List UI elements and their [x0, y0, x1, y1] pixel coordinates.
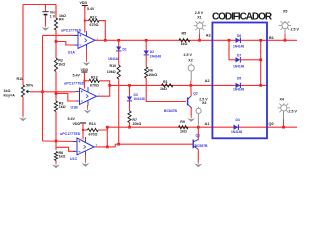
- wire R7 to A1 line: [129, 123, 131, 128]
- wire U1C output: [97, 146, 116, 148]
- svg-text:U1C: U1C: [70, 157, 78, 161]
- svg-text:R14: R14: [89, 122, 96, 126]
- resistor R7 10k: [128, 111, 141, 126]
- wire U1B bottom pin to ground: [87, 105, 89, 108]
- wire R6 down to Q2 base (crosses bus): [146, 78, 186, 102]
- svg-text:B1: B1: [269, 36, 274, 40]
- lamp X4 2.5V lit: [278, 98, 298, 114]
- resistor R13 670 pull-up: [84, 75, 99, 87]
- svg-text:1N4148: 1N4148: [231, 130, 242, 134]
- wire right drop B1: [260, 40, 262, 85]
- lamp X2 2.5V off: [184, 53, 195, 71]
- junction D1 column: [117, 39, 120, 42]
- wire node2 step to U1B minus input: [56, 94, 76, 102]
- wire D7 output to drop: [240, 59, 261, 61]
- junction D2 column: [145, 39, 148, 42]
- svg-text:R6: R6: [148, 69, 153, 73]
- wire A1 line: [107, 126, 297, 128]
- svg-text:A2: A2: [205, 79, 210, 83]
- resistor R12 670 pull-up: [85, 15, 99, 27]
- wire R14 drop / A1 left vertical: [98, 130, 107, 147]
- junction lamp X1: [198, 39, 201, 42]
- svg-text:X5: X5: [283, 10, 287, 14]
- svg-text:1N4148: 1N4148: [233, 87, 244, 91]
- wire top from left corner to R4 column: [23, 4, 56, 6]
- wire R13 drop to bus: [99, 81, 109, 86]
- junction R13 on bus: [108, 84, 111, 87]
- node1 junction to U1A step: [55, 40, 58, 43]
- svg-text:1N4148: 1N4148: [150, 55, 161, 59]
- wire bus A2 line: [110, 84, 268, 86]
- diode D1 1N4148: [108, 47, 127, 62]
- wire R8 to ground: [55, 161, 57, 164]
- junction R7 on A1: [128, 126, 131, 129]
- wire VDD stem to U1B: [83, 72, 85, 89]
- wire X5 stub: [284, 29, 286, 40]
- resistor R2 1k ladder: [54, 58, 65, 72]
- svg-text:R9: R9: [180, 120, 185, 124]
- svg-text:670Ω: 670Ω: [90, 23, 99, 27]
- wire D1 column upper: [118, 40, 120, 46]
- svg-text:VDD: VDD: [73, 122, 81, 126]
- svg-text:2.5 V: 2.5 V: [289, 110, 298, 114]
- wire node3 step to U1C minus input: [56, 147, 75, 151]
- svg-text:U1A: U1A: [68, 50, 76, 54]
- svg-text:1kΩ: 1kΩ: [59, 155, 66, 159]
- title CODIFICADOR: [212, 12, 273, 23]
- ground below U1A: [83, 61, 91, 66]
- svg-text:Key=A: Key=A: [4, 94, 16, 98]
- resistor R5 1k on A3 line: [179, 31, 190, 45]
- junction D7 branch on A3: [228, 39, 231, 42]
- svg-text:R10: R10: [110, 64, 117, 68]
- wire R12 to U1A output node: [99, 21, 105, 41]
- svg-text:D4: D4: [236, 118, 240, 122]
- resistor R4 1k ladder: [54, 14, 66, 30]
- svg-text:1N4148: 1N4148: [233, 64, 244, 68]
- junction VDD to R13: [83, 80, 85, 82]
- svg-text:R5: R5: [182, 31, 187, 35]
- encoder box CODIFICADOR outline: [212, 23, 267, 139]
- power VDD U1C: [68, 117, 87, 126]
- wire R4 top lead: [55, 5, 57, 19]
- svg-text:D6: D6: [237, 34, 241, 38]
- svg-text:uPC177TED: uPC177TED: [61, 28, 82, 32]
- svg-text:1N4148: 1N4148: [108, 57, 119, 61]
- potentiometer R11 1k Key=A: [4, 77, 34, 98]
- wire Vref bottom to ground: [45, 15, 47, 25]
- svg-text:U1B: U1B: [71, 106, 79, 110]
- wire pot wiper to U1B plus input: [30, 91, 76, 93]
- net label A3: [206, 34, 211, 38]
- wire Q2 emitter down: [190, 108, 192, 117]
- node3 junction with signal line: [55, 140, 58, 143]
- svg-text:R4: R4: [59, 18, 64, 22]
- node2 junction to U1B step: [55, 92, 58, 95]
- resistor R6 10k: [145, 67, 158, 78]
- junction R14 on A1 start: [106, 126, 109, 129]
- wire VDD stem to U1C: [82, 123, 84, 140]
- resistor R10 10k: [107, 64, 120, 79]
- op-amp U1B uPC177TED: [64, 81, 100, 109]
- svg-text:D7: D7: [237, 54, 241, 58]
- voltage source Vref 1V battery symbol: [42, 10, 57, 18]
- wire U1C output jog up: [114, 144, 116, 147]
- svg-text:5.4V: 5.4V: [87, 7, 95, 11]
- wire node1 step to U1A minus input: [56, 42, 78, 46]
- svg-text:2.5 V: 2.5 V: [184, 53, 193, 57]
- resistor R8 1k ladder bottom: [54, 151, 65, 161]
- svg-text:X1: X1: [197, 15, 201, 19]
- svg-text:1kΩ: 1kΩ: [58, 62, 65, 66]
- svg-text:D1: D1: [123, 48, 127, 52]
- svg-text:BC557B: BC557B: [195, 144, 209, 148]
- diode D4 1N4148 on A1: [231, 118, 242, 134]
- svg-text:X2: X2: [188, 59, 192, 63]
- wire signal corner to U1C plus input: [43, 140, 76, 143]
- junction drop on A3: [259, 39, 262, 42]
- op-amp U1A uPC177TED: [61, 28, 99, 54]
- svg-text:Q1: Q1: [196, 133, 201, 137]
- wire Q2 collector: [190, 85, 192, 95]
- svg-text:R13: R13: [91, 75, 98, 79]
- wire X2 stub: [190, 71, 192, 85]
- junction drop on A2: [259, 84, 262, 87]
- svg-text:uPC177TED: uPC177TED: [60, 132, 81, 136]
- resistor R14 670 pull-up: [83, 122, 98, 136]
- wire D2 column upper: [145, 40, 147, 50]
- junction R10 riser on base line: [117, 143, 120, 146]
- svg-text:R1: R1: [163, 80, 168, 84]
- voltage source Vref stub up: [45, 5, 47, 12]
- svg-text:10kΩ: 10kΩ: [132, 122, 141, 126]
- svg-text:10kΩ: 10kΩ: [107, 70, 116, 74]
- wire Q1 base line: [115, 143, 192, 145]
- svg-text:CODIFICADOR: CODIFICADOR: [212, 12, 273, 23]
- op-amp U1C uPC177TED: [60, 132, 98, 161]
- resistor R3 1k ladder: [54, 101, 65, 112]
- diode D7 1N4148: [233, 54, 244, 69]
- wire signal to U1A plus input: [43, 34, 79, 36]
- resistor R1 1k on bus: [160, 80, 173, 91]
- svg-text:670Ω: 670Ω: [89, 133, 98, 137]
- net label A2: [205, 79, 210, 83]
- junction X2 Q2 collector on bus: [189, 84, 192, 87]
- svg-text:Q2: Q2: [193, 92, 198, 96]
- svg-text:10kΩ: 10kΩ: [148, 73, 157, 77]
- svg-text:50%: 50%: [26, 84, 34, 88]
- lamp X3 2.5V off: [196, 98, 208, 114]
- wire X1 stub: [199, 29, 201, 40]
- svg-text:1kΩ: 1kΩ: [59, 105, 66, 109]
- svg-text:VDD: VDD: [81, 68, 89, 72]
- wire U1C bottom pin to ground: [85, 155, 87, 161]
- svg-text:X3: X3: [202, 101, 206, 105]
- svg-text:Q0: Q0: [269, 122, 274, 126]
- diode D2 1N4148: [144, 50, 162, 59]
- wire VDD stem to U1A: [84, 6, 86, 33]
- svg-text:1N4148: 1N4148: [134, 97, 145, 101]
- wire U1A bottom pin to ground: [86, 49, 88, 61]
- svg-text:VDD: VDD: [80, 1, 88, 5]
- svg-text:1 V: 1 V: [50, 14, 56, 18]
- wire pot bottom to ground: [22, 97, 24, 116]
- svg-text:D5: D5: [237, 77, 241, 81]
- svg-text:R11: R11: [17, 77, 23, 81]
- ground below R8: [52, 163, 60, 168]
- wire D1 to R10: [118, 51, 120, 65]
- junction wiper and signal vertical: [41, 90, 44, 93]
- wire Q1 collector: [197, 127, 199, 140]
- ground below Q1: [194, 162, 202, 167]
- net label A1: [205, 122, 210, 126]
- wire D2 to R6: [145, 55, 147, 67]
- power VDD U1A: [80, 1, 95, 11]
- junction X4 on A1: [282, 126, 285, 129]
- resistor R9 1k on A1: [179, 120, 188, 133]
- wire A1 vertical top: [106, 127, 108, 130]
- wire X3 stub: [197, 114, 199, 128]
- svg-text:1N4148: 1N4148: [233, 44, 244, 48]
- ground below pot R11: [19, 116, 27, 121]
- wire ladder node1 segment: [55, 30, 57, 58]
- svg-text:D2: D2: [150, 50, 154, 54]
- junction VDD to R14: [82, 129, 84, 131]
- power VDD U1B: [73, 68, 89, 77]
- svg-text:1kΩ: 1kΩ: [4, 89, 11, 93]
- svg-text:A3: A3: [206, 34, 211, 38]
- svg-text:X4: X4: [280, 98, 284, 102]
- lamp X1 2.5V lit: [194, 11, 206, 30]
- svg-text:A1: A1: [205, 122, 210, 126]
- diode D3 1N4148: [127, 93, 145, 101]
- ground below Q2 emitter: [187, 117, 195, 122]
- wire ladder node2 segment: [55, 72, 57, 102]
- wire U1A output line A3: [95, 39, 297, 41]
- svg-text:5.4V: 5.4V: [73, 74, 81, 78]
- junction X5 on A3: [284, 39, 287, 42]
- svg-text:2.5 V: 2.5 V: [291, 28, 300, 32]
- svg-text:1kΩ: 1kΩ: [160, 87, 167, 91]
- transistor Q1 BC557B pnp: [193, 133, 208, 149]
- wire D7 branch: [229, 40, 236, 60]
- svg-text:BC847B: BC847B: [164, 109, 178, 113]
- diode D5 1N4148 on A2 bus: [233, 77, 244, 92]
- junction X3 Q1 collector on A1: [197, 126, 200, 129]
- transistor Q2 BC847B npn: [164, 92, 198, 114]
- net label Q0: [269, 122, 274, 126]
- junction VDD to R12: [84, 20, 86, 22]
- wire U1B output riser to bus: [99, 85, 110, 96]
- svg-text:uPC177TED: uPC177TED: [64, 81, 85, 85]
- wire signal vertical: [42, 35, 44, 141]
- junction R14 on U1C output: [106, 146, 109, 149]
- junction D3 column: [128, 84, 131, 87]
- junction R12 drop on output: [104, 39, 107, 42]
- wire D3 to R7: [129, 101, 131, 111]
- ground below U1B: [84, 108, 92, 113]
- wire X4 stub: [283, 111, 285, 127]
- svg-text:1kΩ: 1kΩ: [181, 42, 188, 46]
- wire ladder node3 segment: [55, 112, 57, 151]
- wire left vertical from top corner down to potentiometer R11: [22, 5, 24, 86]
- svg-text:670Ω: 670Ω: [90, 84, 99, 88]
- wire R10 down to Q1 base line (crosses bus and A1): [118, 79, 120, 144]
- wire D3 column upper: [129, 85, 131, 96]
- diode D6 1N4148 on A3: [233, 34, 244, 48]
- svg-text:1kΩ: 1kΩ: [180, 129, 187, 133]
- junction drop D7: [259, 58, 262, 61]
- net label B1: [269, 36, 274, 40]
- svg-text:5.4V: 5.4V: [68, 117, 76, 121]
- ground below Vref: [42, 26, 50, 31]
- lamp X5 2.5V lit: [279, 10, 300, 32]
- ground below U1C: [82, 162, 90, 167]
- svg-text:R12: R12: [90, 15, 97, 19]
- wire Q1 emitter to ground: [197, 149, 199, 162]
